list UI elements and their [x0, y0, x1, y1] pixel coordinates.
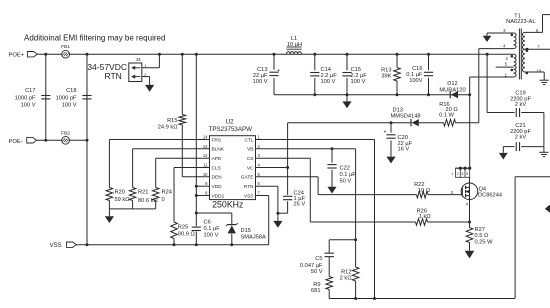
svg-text:GATE: GATE	[241, 175, 254, 181]
svg-text:10 Ω: 10 Ω	[418, 188, 430, 194]
svg-text:1000 pF: 1000 pF	[56, 95, 77, 101]
svg-text:DC86244: DC86244	[478, 193, 502, 199]
svg-text:80.6 kΩ: 80.6 kΩ	[138, 198, 158, 204]
svg-text:+: +	[384, 130, 387, 136]
svg-text:13: 13	[203, 144, 208, 149]
svg-text:C22: C22	[340, 166, 350, 172]
svg-text:BLNK: BLNK	[212, 147, 225, 153]
svg-text:Additioinal EMI filtering may: Additioinal EMI filtering may be require…	[24, 33, 165, 42]
svg-text:MMSD4148: MMSD4148	[391, 114, 421, 120]
svg-text:0.5 Ω: 0.5 Ω	[475, 233, 489, 239]
svg-text:16 V: 16 V	[398, 147, 410, 153]
svg-text:POE+: POE+	[9, 52, 25, 58]
svg-text:0: 0	[162, 197, 165, 203]
svg-text:C18: C18	[66, 88, 76, 94]
svg-text:50 V: 50 V	[340, 178, 352, 184]
svg-text:100 V: 100 V	[62, 103, 77, 109]
svg-text:39K: 39K	[381, 74, 391, 80]
svg-text:D12: D12	[447, 81, 457, 87]
svg-text:Q4: Q4	[479, 186, 487, 192]
svg-text:C6: C6	[204, 219, 211, 225]
svg-text:10: 10	[203, 172, 208, 177]
svg-text:14: 14	[203, 135, 208, 140]
svg-text:10: 10	[537, 69, 542, 74]
svg-text:100 V: 100 V	[204, 232, 219, 238]
svg-text:FB2: FB2	[61, 131, 70, 137]
svg-text:2 kV: 2 kV	[515, 102, 527, 108]
svg-text:R21: R21	[138, 189, 148, 195]
svg-text:R27: R27	[475, 227, 485, 233]
svg-text:1: 1	[451, 172, 453, 176]
svg-text:6: 6	[466, 172, 468, 176]
svg-text:D15: D15	[241, 228, 251, 234]
svg-text:VSS: VSS	[244, 193, 254, 199]
svg-text:FRS: FRS	[212, 137, 222, 143]
svg-text:J4: J4	[136, 57, 141, 63]
svg-text:APD: APD	[212, 156, 222, 162]
svg-text:DEN: DEN	[212, 175, 223, 181]
svg-text:VB: VB	[247, 147, 253, 153]
svg-text:R25: R25	[178, 224, 188, 230]
svg-text:MURA120: MURA120	[439, 88, 465, 94]
svg-text:681: 681	[311, 288, 321, 294]
svg-text:50 V: 50 V	[311, 269, 323, 275]
svg-text:VDD: VDD	[212, 184, 223, 190]
svg-text:12: 12	[203, 153, 208, 158]
svg-text:R13: R13	[381, 67, 391, 73]
svg-text:R24: R24	[162, 189, 172, 195]
svg-text:2: 2	[457, 172, 459, 176]
svg-text:RTN: RTN	[244, 184, 254, 190]
svg-text:11: 11	[203, 163, 208, 168]
svg-text:CLS: CLS	[212, 165, 221, 171]
svg-text:VSS: VSS	[50, 243, 62, 249]
svg-text:0.1 µF: 0.1 µF	[406, 72, 423, 78]
svg-text:R15: R15	[167, 118, 177, 124]
svg-text:100 V: 100 V	[253, 79, 268, 85]
svg-text:5: 5	[462, 172, 464, 176]
svg-text:2 kΩ: 2 kΩ	[340, 276, 352, 282]
svg-text:C5: C5	[315, 256, 322, 262]
svg-text:0.1 µF: 0.1 µF	[340, 172, 357, 178]
svg-text:C17: C17	[25, 88, 35, 94]
svg-text:59 kΩ: 59 kΩ	[115, 197, 130, 203]
svg-text:R20: R20	[115, 189, 125, 195]
svg-text:VC: VC	[247, 165, 254, 171]
svg-text:C16: C16	[412, 66, 422, 72]
svg-text:100V: 100V	[409, 78, 422, 84]
svg-text:POE-: POE-	[9, 139, 23, 145]
svg-text:10 µH: 10 µH	[287, 42, 302, 48]
svg-text:2 kV: 2 kV	[515, 135, 527, 141]
svg-text:CS: CS	[247, 156, 254, 162]
svg-text:R12: R12	[341, 269, 351, 275]
svg-text:100 V: 100 V	[21, 103, 36, 109]
svg-text:24.9 kΩ: 24.9 kΩ	[158, 125, 178, 131]
svg-text:NA6223-AL: NA6223-AL	[506, 19, 535, 25]
svg-text:250KHz: 250KHz	[212, 199, 243, 209]
svg-text:+: +	[277, 68, 280, 74]
svg-text:25 V: 25 V	[294, 202, 306, 208]
svg-text:RTN: RTN	[104, 71, 121, 81]
svg-text:SMAJ58A: SMAJ58A	[241, 235, 266, 241]
svg-text:1000 pF: 1000 pF	[15, 95, 36, 101]
svg-text:0.1 µF: 0.1 µF	[204, 226, 221, 232]
svg-text:1 kΩ: 1 kΩ	[419, 214, 431, 220]
svg-text:U2: U2	[226, 119, 234, 126]
svg-text:90.9 Ω: 90.9 Ω	[178, 232, 195, 238]
svg-text:TPS23753APW: TPS23753APW	[209, 126, 252, 133]
svg-text:100 V: 100 V	[321, 79, 336, 85]
svg-text:CTL: CTL	[244, 137, 253, 143]
svg-text:0.25 W: 0.25 W	[475, 239, 494, 245]
svg-text:FB1: FB1	[61, 44, 70, 50]
svg-text:100 V: 100 V	[351, 79, 366, 85]
svg-text:0.1 W: 0.1 W	[439, 113, 454, 119]
